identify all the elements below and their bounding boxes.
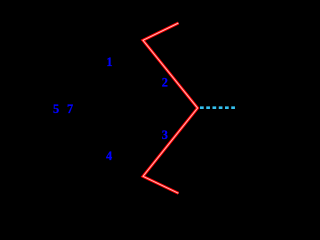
svg-text:2: 2 [162,76,168,90]
svg-text:1: 1 [106,55,112,69]
svg-text:5: 5 [53,102,59,116]
svg-text:7: 7 [67,102,73,116]
wire cyan dashed ray [200,106,235,109]
wire red polyline path (edges 1-2-3) [143,23,198,193]
svg-text:3: 3 [162,128,168,142]
svg-text:4: 4 [106,149,112,163]
